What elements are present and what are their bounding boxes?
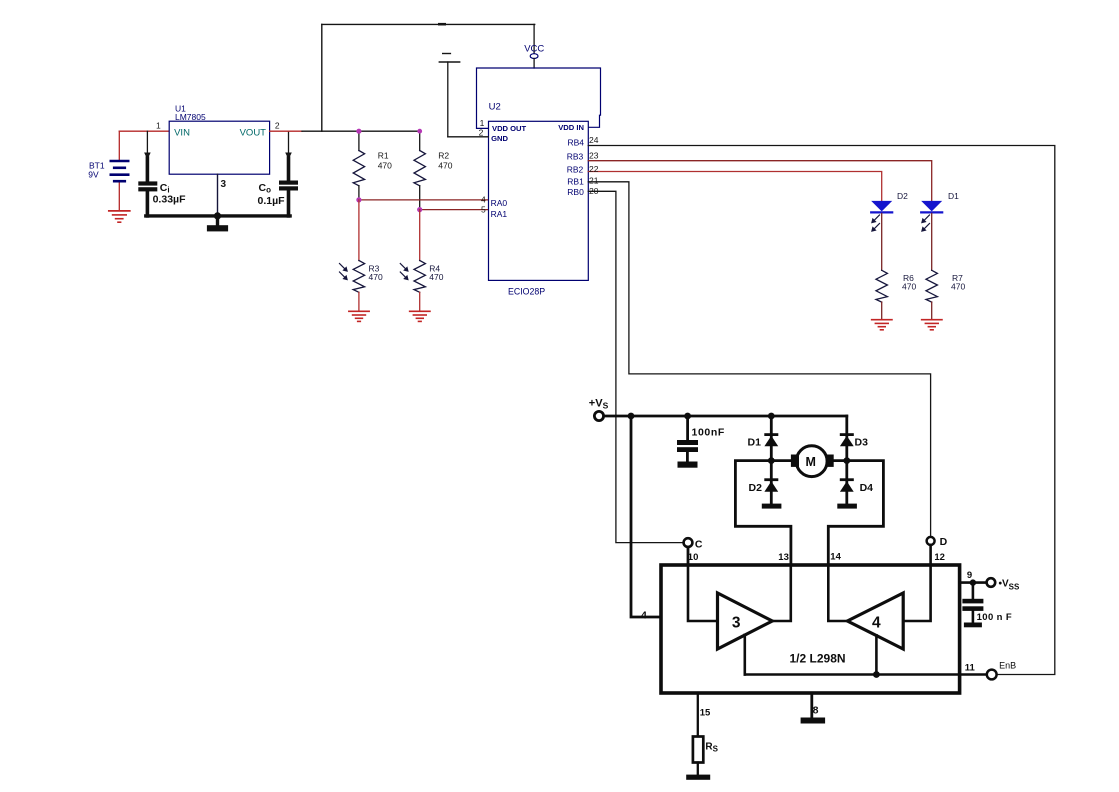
- svg-text:R2: R2: [438, 151, 449, 161]
- svg-text:100 n F: 100 n F: [977, 612, 1013, 623]
- svg-text:EnB: EnB: [999, 660, 1016, 670]
- svg-text:3: 3: [732, 614, 741, 631]
- svg-text:R1: R1: [378, 151, 389, 161]
- svg-text:D1: D1: [748, 436, 762, 448]
- svg-text:RB1: RB1: [567, 176, 584, 186]
- svg-text:470: 470: [438, 161, 452, 171]
- svg-text:3: 3: [221, 179, 227, 190]
- svg-text:8: 8: [813, 705, 819, 717]
- svg-text:1: 1: [480, 118, 485, 128]
- svg-text:RA1: RA1: [491, 209, 508, 219]
- svg-text:23: 23: [589, 151, 599, 161]
- svg-text:0.1µF: 0.1µF: [258, 195, 286, 207]
- svg-text:470: 470: [378, 161, 392, 171]
- svg-text:4: 4: [872, 614, 881, 631]
- svg-text:470: 470: [429, 272, 443, 282]
- svg-text:9: 9: [967, 570, 972, 581]
- svg-text:GND: GND: [491, 134, 508, 143]
- svg-text:VDD IN: VDD IN: [558, 123, 584, 132]
- svg-text:VCC: VCC: [524, 44, 544, 55]
- svg-text:11: 11: [965, 662, 976, 673]
- svg-text:14: 14: [830, 552, 841, 563]
- svg-text:470: 470: [369, 272, 383, 282]
- svg-text:13: 13: [778, 552, 789, 563]
- svg-text:C: C: [695, 539, 703, 551]
- svg-text:22: 22: [589, 164, 599, 174]
- svg-text:24: 24: [589, 135, 599, 145]
- svg-text:10: 10: [688, 552, 699, 563]
- svg-text:RB2: RB2: [567, 165, 584, 175]
- svg-text:1: 1: [156, 120, 161, 130]
- svg-text:12: 12: [934, 552, 945, 563]
- svg-text:2: 2: [479, 127, 484, 137]
- svg-text:RB4: RB4: [568, 138, 585, 148]
- svg-text:D2: D2: [897, 191, 908, 201]
- svg-text:D3: D3: [855, 436, 869, 448]
- svg-text:2: 2: [275, 121, 280, 131]
- svg-text:21: 21: [589, 175, 599, 185]
- svg-text:VIN: VIN: [174, 128, 190, 139]
- svg-text:20: 20: [589, 186, 599, 196]
- svg-text:9V: 9V: [88, 170, 99, 180]
- svg-text:D1: D1: [948, 191, 959, 201]
- svg-text:RB0: RB0: [567, 187, 584, 197]
- svg-text:RB3: RB3: [567, 152, 584, 162]
- svg-text:LM7805: LM7805: [175, 112, 206, 122]
- svg-text:RA0: RA0: [491, 198, 508, 208]
- svg-text:D2: D2: [749, 482, 763, 494]
- svg-text:M: M: [806, 455, 816, 469]
- svg-text:0.33µF: 0.33µF: [153, 193, 186, 205]
- svg-text:15: 15: [700, 707, 711, 718]
- svg-text:4: 4: [641, 610, 647, 622]
- svg-text:VOUT: VOUT: [240, 128, 267, 139]
- svg-text:D4: D4: [860, 482, 874, 494]
- svg-text:ECIO28P: ECIO28P: [508, 286, 545, 296]
- svg-text:D: D: [940, 536, 948, 548]
- svg-text:5: 5: [481, 204, 486, 214]
- svg-text:4: 4: [481, 194, 486, 204]
- svg-text:470: 470: [902, 282, 916, 292]
- svg-text:U2: U2: [489, 102, 501, 113]
- svg-text:470: 470: [951, 282, 965, 292]
- svg-text:VDD OUT: VDD OUT: [492, 124, 527, 133]
- svg-text:1/2 L298N: 1/2 L298N: [790, 652, 846, 666]
- svg-text:100nF: 100nF: [692, 426, 725, 438]
